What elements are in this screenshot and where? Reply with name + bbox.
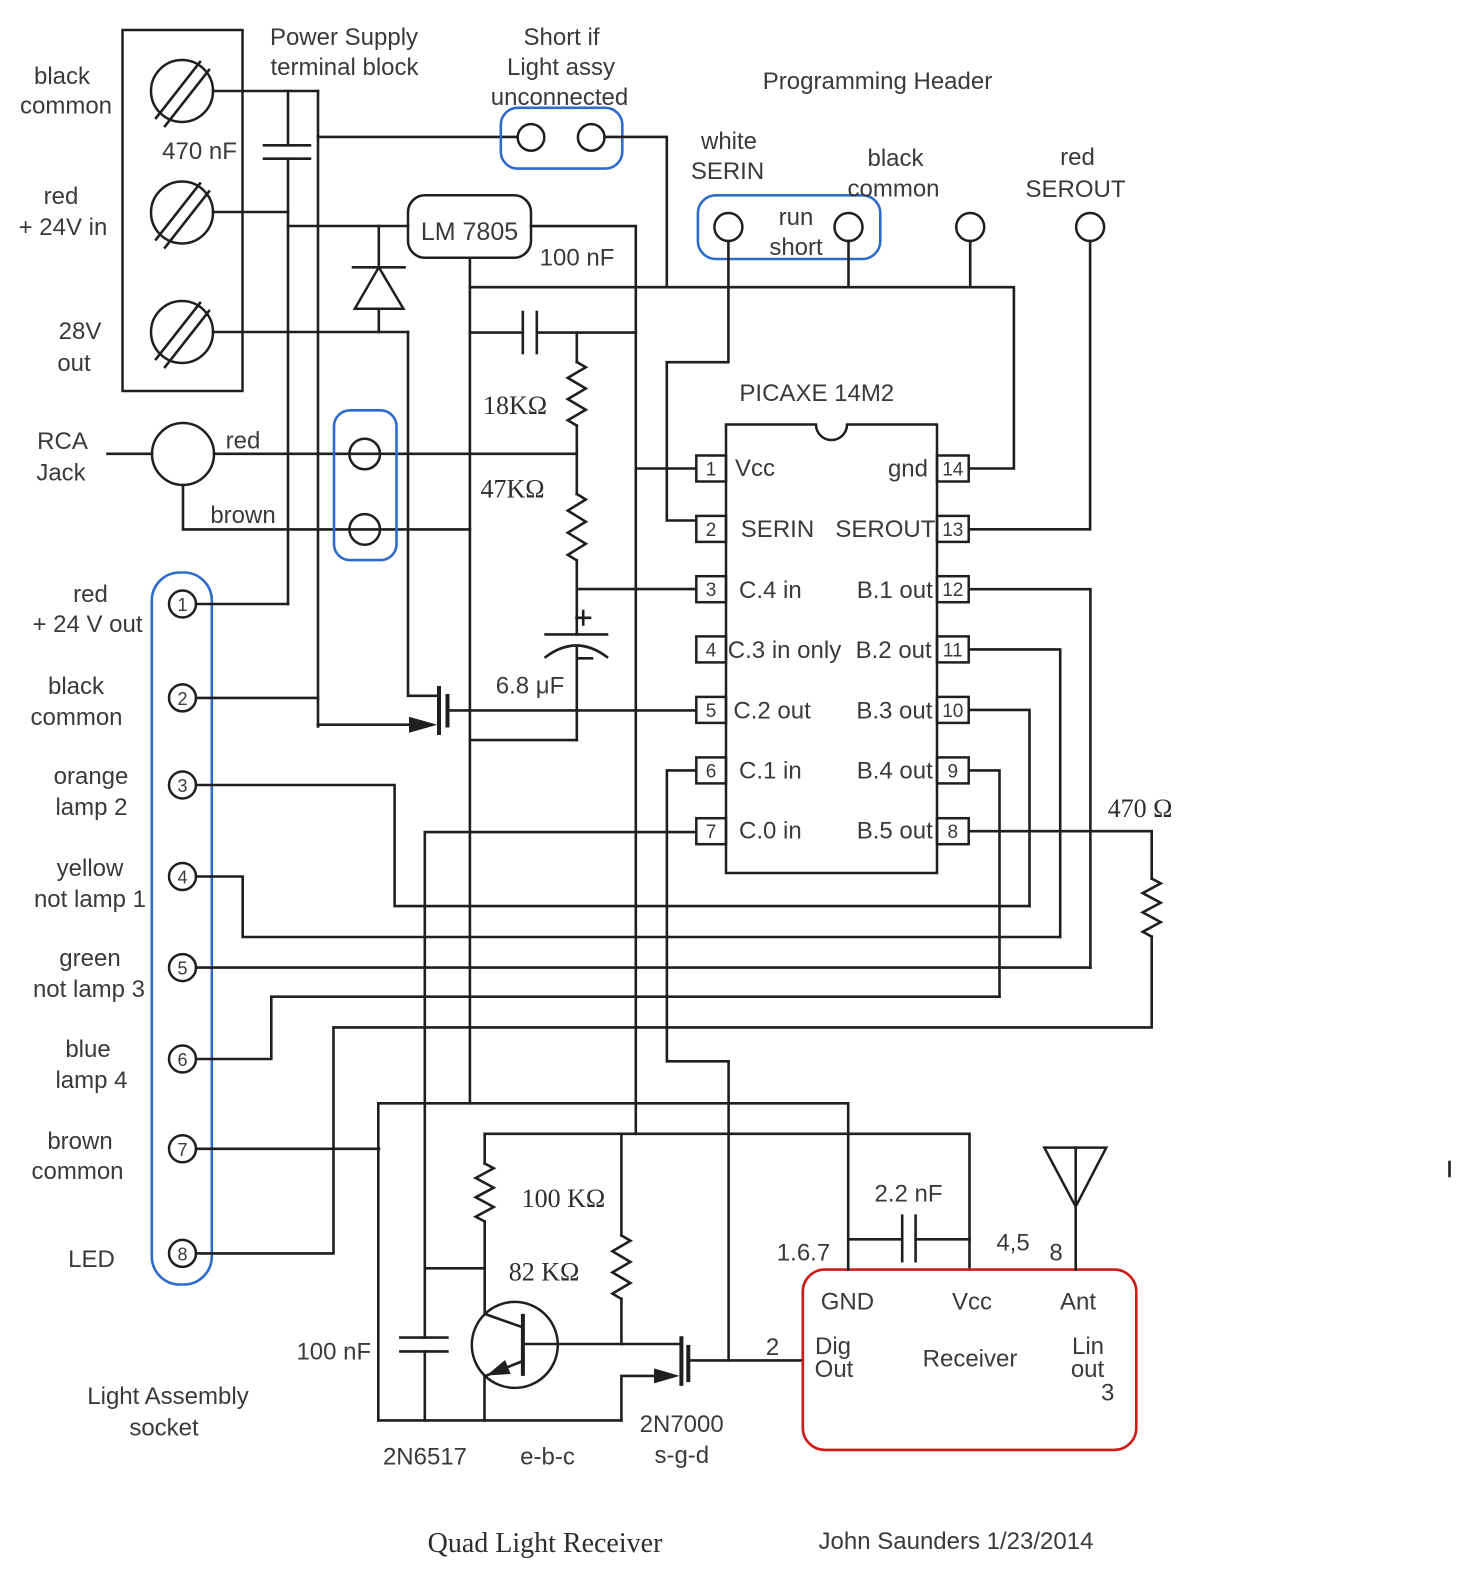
svg-text:100 nF: 100 nF — [296, 1339, 371, 1366]
receiver red box — [803, 1270, 1137, 1450]
svg-text:Receiver: Receiver — [923, 1346, 1018, 1373]
socket pin 2 circle — [169, 684, 196, 711]
svg-text:18KΩ: 18KΩ — [483, 391, 547, 420]
wire socket pin3 orange lamp2 — [196, 785, 1030, 906]
svg-text:out: out — [1071, 1356, 1105, 1383]
IC pin box 5 — [696, 697, 726, 723]
wire LM7805 input — [288, 225, 408, 228]
svg-text:6: 6 — [706, 761, 717, 782]
svg-text:common: common — [847, 176, 939, 203]
capacitor 470nF — [264, 145, 310, 158]
svg-text:common: common — [31, 1158, 123, 1185]
wire 2N7000 source — [621, 1376, 655, 1421]
resistor 18K — [568, 333, 586, 453]
wire socket pin7 brown common — [196, 1148, 379, 1151]
amp block gnd rail — [378, 1102, 848, 1105]
mosfet Q3 channel bar — [679, 1336, 683, 1386]
svg-text:5: 5 — [706, 701, 717, 722]
wire pin12 B.1 out to green — [969, 589, 1090, 967]
mosfet Q3 2N7000 source arrow — [654, 1368, 680, 1383]
svg-text:brown: brown — [47, 1128, 112, 1155]
mosfet Q2 gate bar — [446, 694, 450, 728]
wire 28V out from screw3 — [213, 331, 408, 334]
svg-text:6.8 μF: 6.8 μF — [496, 673, 565, 700]
RCA jack circle — [152, 423, 214, 485]
wire pin6 C.1 in to receiver DigOut — [667, 770, 729, 1360]
IC pin box 12 — [937, 576, 969, 602]
connector blue box (red/brown) — [334, 410, 397, 560]
terminal block outline — [123, 30, 243, 391]
wire black common rail vertical — [317, 91, 320, 726]
svg-text:terminal block: terminal block — [270, 54, 419, 81]
svg-text:82 KΩ: 82 KΩ — [509, 1258, 580, 1287]
svg-text:run: run — [779, 204, 814, 231]
capacitor 6.8uF electrolytic — [546, 611, 607, 740]
svg-text:2N7000: 2N7000 — [640, 1411, 724, 1438]
svg-text:SEROUT: SEROUT — [1025, 176, 1125, 203]
svg-text:common: common — [30, 704, 122, 731]
svg-text:blue: blue — [65, 1036, 110, 1063]
svg-text:B.4 out: B.4 out — [857, 758, 933, 785]
svg-text:not lamp 3: not lamp 3 — [33, 976, 145, 1003]
svg-text:1: 1 — [177, 595, 187, 615]
svg-text:Ant: Ant — [1060, 1289, 1096, 1316]
capacitor 100nF (5V) — [523, 312, 537, 353]
resistor 470 ohm — [1143, 879, 1161, 937]
wire 100nF right lead — [537, 331, 636, 334]
programming header run-short circle — [835, 213, 863, 241]
wire socket pin6 blue lamp4 — [196, 997, 1000, 1059]
svg-text:4: 4 — [706, 640, 717, 661]
svg-text:brown: brown — [210, 502, 275, 529]
svg-text:C.2 out: C.2 out — [733, 698, 811, 725]
svg-text:7: 7 — [177, 1140, 187, 1160]
svg-text:4: 4 — [177, 868, 187, 888]
wire cap top lead — [287, 91, 290, 145]
svg-text:Power Supply: Power Supply — [270, 24, 418, 51]
svg-text:black: black — [48, 673, 105, 700]
wire gnd rail horizontal — [470, 287, 1014, 468]
wire 6.8uF minus to gnd — [470, 739, 577, 742]
svg-text:2: 2 — [766, 1334, 779, 1361]
wire 470R to LED line — [334, 937, 1152, 1028]
programming header black common circle — [956, 213, 984, 241]
wire +24V rail vertical — [287, 159, 290, 604]
svg-text:LED: LED — [68, 1246, 115, 1273]
wire pin1 Vcc to 5V rail — [636, 467, 696, 470]
socket pin 5 circle — [169, 954, 196, 981]
wire socket pin8 LED — [196, 1027, 334, 1253]
wire black common from screw1 — [213, 90, 318, 93]
amp block left rail — [377, 1103, 380, 1420]
svg-text:Programming Header: Programming Header — [763, 68, 992, 95]
svg-text:14: 14 — [942, 460, 964, 481]
svg-text:Short if: Short if — [523, 24, 599, 51]
IC pin box 1 — [696, 456, 726, 482]
svg-text:8: 8 — [948, 822, 959, 843]
svg-text:9: 9 — [948, 761, 959, 782]
svg-text:SEROUT: SEROUT — [835, 516, 935, 543]
wire socket pin4 yellow not lamp1 — [196, 877, 1060, 938]
wire socket pin5 green not lamp3 — [196, 966, 1090, 969]
svg-text:C.3 in only: C.3 in only — [728, 637, 841, 664]
svg-text:SERIN: SERIN — [691, 158, 764, 185]
svg-text:3: 3 — [706, 580, 717, 601]
wire 100nF left lead — [470, 331, 523, 334]
svg-text:3: 3 — [1101, 1380, 1114, 1407]
svg-text:8: 8 — [177, 1244, 187, 1264]
wire SEROUT header to pin13 — [969, 241, 1090, 529]
wire to short-if block — [318, 136, 518, 139]
svg-text:Vcc: Vcc — [952, 1289, 992, 1316]
wire black common header to gnd rail — [969, 241, 972, 287]
svg-text:short: short — [769, 234, 823, 261]
IC pin box 10 — [937, 697, 969, 723]
wire LM7805 ground lead — [469, 258, 472, 1104]
svg-text:red: red — [73, 581, 108, 608]
svg-text:1.6.7: 1.6.7 — [777, 1240, 830, 1267]
svg-text:socket: socket — [129, 1415, 199, 1442]
resistor 82K — [612, 1134, 630, 1344]
svg-text:Light Assembly: Light Assembly — [87, 1383, 248, 1410]
svg-text:GND: GND — [821, 1289, 874, 1316]
terminal screw 2 (red +24V in) — [151, 182, 213, 248]
wire black rail to mosfet source — [318, 725, 410, 727]
svg-text:Light assy: Light assy — [507, 54, 615, 81]
IC pin box 9 — [937, 757, 969, 783]
IC pin box 7 — [696, 818, 726, 844]
stray mark I — [1448, 1162, 1451, 1176]
wire receiver GND up to gnd rail — [847, 1103, 850, 1269]
svg-text:2: 2 — [177, 689, 187, 709]
wire SERIN header to pin2 — [667, 241, 729, 521]
svg-text:s-g-d: s-g-d — [654, 1442, 709, 1469]
regulator LM7805 box — [408, 195, 531, 258]
capacitor 2.2nF — [848, 1216, 969, 1262]
terminal screw 1 (black common) — [151, 60, 213, 126]
transistor Q1 2N6517 — [472, 1302, 558, 1421]
socket pin 7 circle — [169, 1135, 196, 1162]
wire pin9 B.4 out to blue — [969, 770, 1000, 996]
svg-text:B.5 out: B.5 out — [857, 818, 933, 845]
resistor 100K — [476, 1134, 494, 1314]
wire pin8 B.5 out to 470R — [969, 831, 1152, 878]
svg-text:C.1 in: C.1 in — [739, 758, 802, 785]
wire base / gate line — [523, 1343, 680, 1346]
socket pin 6 circle — [169, 1046, 196, 1073]
svg-text:12: 12 — [942, 580, 963, 601]
wire brown from RCA — [183, 485, 470, 529]
svg-text:lamp 4: lamp 4 — [55, 1067, 127, 1094]
svg-text:common: common — [20, 93, 112, 120]
IC pin box 6 — [696, 757, 726, 783]
svg-text:2.2 nF: 2.2 nF — [874, 1181, 942, 1208]
IC pin box 13 — [937, 516, 969, 542]
amp block bottom rail — [378, 1419, 621, 1422]
svg-text:3: 3 — [177, 776, 187, 796]
svg-text:PICAXE 14M2: PICAXE 14M2 — [739, 380, 894, 407]
svg-text:red: red — [1060, 144, 1095, 171]
wire LM7805 output / 5V rail — [531, 226, 636, 1134]
svg-text:7: 7 — [706, 822, 717, 843]
svg-text:Quad Light Receiver: Quad Light Receiver — [428, 1528, 663, 1559]
svg-text:LM 7805: LM 7805 — [421, 218, 518, 246]
short-if circle left — [518, 124, 545, 151]
wire from screw2 — [213, 211, 288, 214]
svg-text:1: 1 — [706, 460, 717, 481]
programming header blue box — [698, 195, 880, 259]
IC pin box 2 — [696, 516, 726, 542]
wire 5V line to receiver Vcc — [485, 1134, 970, 1270]
short-if circle right — [578, 124, 605, 151]
wire Q3 drain to receiver DigOut — [690, 1359, 803, 1362]
svg-text:100 KΩ: 100 KΩ — [522, 1184, 606, 1213]
short-if connector blue box — [501, 108, 623, 169]
svg-text:white: white — [700, 128, 757, 155]
svg-text:out: out — [57, 350, 91, 377]
wire short-if right to gnd rail — [605, 137, 667, 287]
svg-text:unconnected: unconnected — [491, 84, 628, 111]
connector circle red — [349, 439, 380, 470]
svg-text:yellow: yellow — [57, 855, 124, 882]
svg-text:2: 2 — [706, 520, 717, 541]
IC pin box 3 — [696, 576, 726, 602]
svg-text:green: green — [59, 945, 120, 972]
svg-text:2N6517: 2N6517 — [383, 1444, 467, 1471]
mosfet Q3 gate bar — [686, 1345, 690, 1382]
svg-text:gnd: gnd — [888, 456, 928, 483]
svg-text:13: 13 — [942, 520, 963, 541]
IC pin box 8 — [937, 818, 969, 844]
wire cap to collector node — [425, 1267, 485, 1270]
socket pin 1 circle — [169, 591, 196, 618]
svg-text:B.2 out: B.2 out — [856, 637, 932, 664]
svg-text:11: 11 — [943, 640, 963, 661]
light assembly socket blue box — [152, 573, 212, 1285]
svg-text:SERIN: SERIN — [741, 516, 814, 543]
svg-text:100 nF: 100 nF — [540, 245, 615, 272]
svg-text:Out: Out — [815, 1356, 854, 1383]
IC pin box 4 — [696, 636, 726, 662]
svg-text:470 Ω: 470 Ω — [1108, 794, 1173, 823]
svg-text:John Saunders 1/23/2014: John Saunders 1/23/2014 — [819, 1528, 1094, 1555]
svg-text:47KΩ: 47KΩ — [480, 475, 544, 504]
svg-text:+ 24 V out: + 24 V out — [32, 611, 142, 638]
wire socket pin2 black common — [196, 697, 318, 700]
antenna — [1044, 1148, 1106, 1270]
wire pin3 C.4 in — [577, 588, 696, 591]
svg-text:+ 24V in: + 24V in — [19, 214, 108, 241]
svg-text:B.1 out: B.1 out — [857, 577, 933, 604]
wire RCA red to divider — [108, 452, 153, 455]
svg-text:4,5: 4,5 — [996, 1230, 1029, 1257]
svg-text:red: red — [44, 183, 79, 210]
svg-text:red: red — [226, 428, 261, 455]
svg-text:Jack: Jack — [36, 460, 86, 487]
resistor 47K — [568, 452, 586, 634]
svg-text:10: 10 — [942, 701, 963, 722]
wire Q2 gate to pin5 C.2 out — [449, 709, 696, 712]
svg-text:6: 6 — [177, 1050, 187, 1070]
PICAXE 14M2 IC body — [726, 425, 937, 874]
svg-text:C.4 in: C.4 in — [739, 577, 802, 604]
mosfet Q2 source arrow — [409, 717, 437, 733]
socket pin 8 circle — [169, 1240, 196, 1267]
svg-text:28V: 28V — [59, 318, 102, 345]
IC pin box 14 — [937, 456, 969, 482]
svg-text:lamp 2: lamp 2 — [55, 794, 127, 821]
wire socket pin1 red +24V out — [196, 603, 288, 606]
wire pin11 B.2 out to yellow — [969, 649, 1060, 937]
wire pin7 C.0 in — [425, 832, 696, 1338]
svg-text:black: black — [867, 145, 924, 172]
svg-text:RCA: RCA — [37, 428, 88, 455]
capacitor 100nF (amp) — [400, 1338, 447, 1421]
svg-text:C.0 in: C.0 in — [739, 818, 802, 845]
wire 28V rail down to mosfet drain — [408, 332, 437, 696]
programming header red SEROUT circle — [1076, 213, 1104, 241]
svg-text:Vcc: Vcc — [735, 455, 775, 482]
connector circle brown — [349, 514, 380, 545]
svg-text:black: black — [34, 63, 91, 90]
mosfet Q2 channel bar — [437, 686, 441, 735]
socket pin 4 circle — [169, 863, 196, 890]
programming header white SERIN circle — [714, 213, 742, 241]
wire run-short to gnd rail — [847, 241, 850, 287]
terminal screw 3 (28V out) — [151, 301, 213, 367]
svg-text:8: 8 — [1049, 1240, 1062, 1267]
socket pin 3 circle — [169, 772, 196, 799]
svg-text:5: 5 — [177, 959, 187, 979]
svg-text:e-b-c: e-b-c — [520, 1444, 575, 1471]
diode D1 — [353, 226, 405, 332]
svg-text:B.3 out: B.3 out — [856, 698, 932, 725]
svg-text:not lamp 1: not lamp 1 — [34, 886, 146, 913]
svg-text:470 nF: 470 nF — [162, 138, 237, 165]
wire pin10 B.3 out to orange — [969, 710, 1030, 906]
svg-text:orange: orange — [54, 763, 129, 790]
IC pin box 11 — [937, 636, 969, 662]
